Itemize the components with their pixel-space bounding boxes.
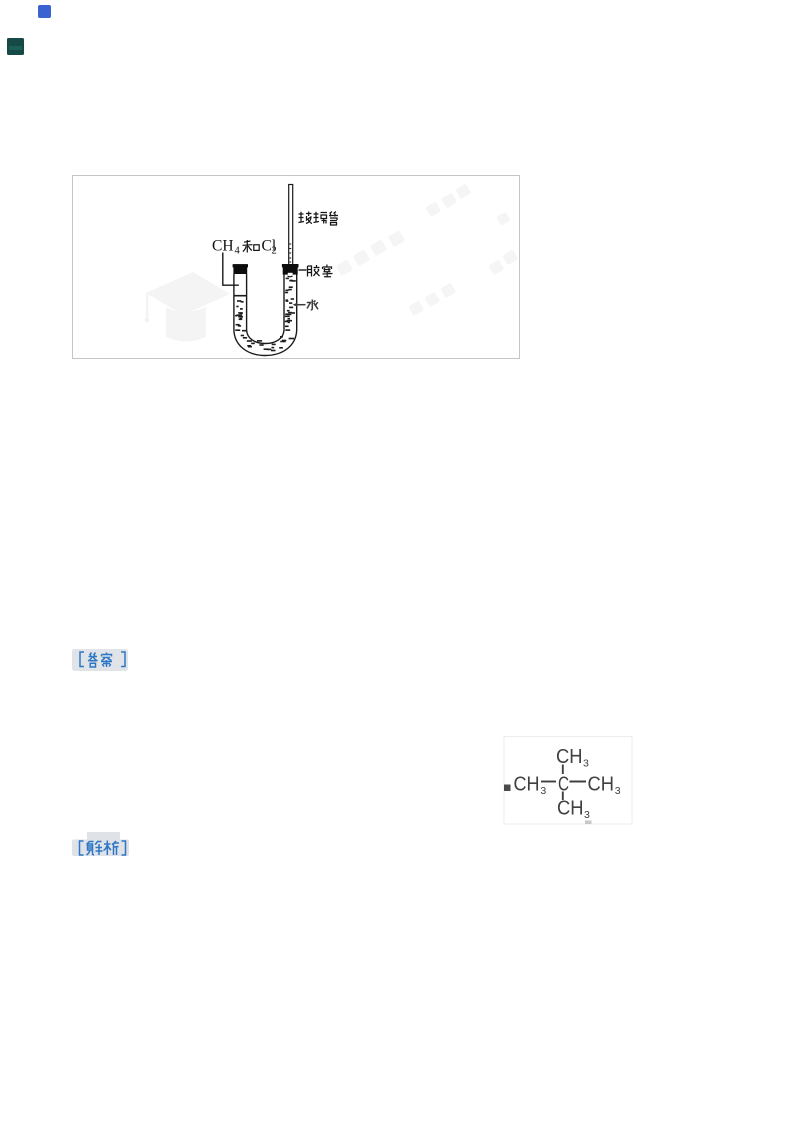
管: [329, 212, 338, 217]
watermark graduation cap logo: [145, 272, 231, 342]
water texture dashes: [235, 278, 296, 352]
diagram image box: [73, 176, 520, 359]
bonds: [541, 765, 586, 801]
析: [104, 841, 112, 856]
teal icon top-left: [7, 38, 24, 55]
molecule image box: [504, 737, 632, 825]
svg-text:3: 3: [584, 809, 590, 821]
light gray mark bottom of molecule box: [585, 821, 592, 825]
label: 水 (drawn glyph): [307, 300, 318, 310]
解: [87, 842, 95, 856]
pointer to water label (arrowhead into tube): [296, 304, 306, 306]
svg-text:CH: CH: [514, 773, 540, 796]
svg-text:4: 4: [235, 246, 241, 257]
watermark diagonal text blobs: [336, 184, 518, 317]
svg-text:CH: CH: [212, 238, 234, 255]
svg-text:2: 2: [272, 246, 277, 257]
svg-text:CH: CH: [588, 773, 615, 796]
案: [101, 653, 112, 668]
svg-text:3: 3: [540, 785, 546, 797]
outer bend: [234, 330, 297, 356]
left rubber stopper: [233, 264, 248, 267]
label: 玻璃管 (drawn glyphs): [299, 212, 339, 226]
neopentane structure: [514, 745, 621, 821]
答: [89, 653, 98, 657]
svg-text:CH: CH: [556, 745, 583, 768]
inner bend: [247, 330, 284, 344]
dark bullet square left of molecule: [504, 785, 511, 792]
badge1 text 【答案】: [80, 652, 125, 667]
svg-text:3: 3: [615, 785, 621, 797]
blue app icon top-left: [38, 5, 51, 18]
glass tube graduations: [289, 244, 291, 262]
label: CH4 和 Cl2 (serif): [212, 238, 277, 257]
pointer line from CH4/Cl2 label into left arm: [223, 253, 239, 286]
analysis badge 2 bump: [87, 832, 120, 842]
U-tube glass tube (vertical): [289, 185, 293, 269]
water line in left arm: [234, 295, 247, 297]
svg-text:3: 3: [583, 758, 589, 770]
glyph 和 (drawn): [243, 240, 260, 253]
pointer to stopper label: [299, 269, 307, 271]
badge2 text 【解析】: [80, 841, 126, 856]
U-tube body: [234, 274, 297, 356]
璃: [314, 212, 320, 223]
玻: [299, 212, 305, 223]
label: 胶塞 (drawn glyphs): [308, 265, 333, 277]
svg-text:CH: CH: [557, 797, 584, 820]
right rubber stopper: [282, 264, 299, 267]
塞: [323, 265, 333, 277]
analysis badge 2: [72, 840, 129, 857]
胶: [308, 266, 312, 277]
answer badge 1: [72, 649, 128, 671]
